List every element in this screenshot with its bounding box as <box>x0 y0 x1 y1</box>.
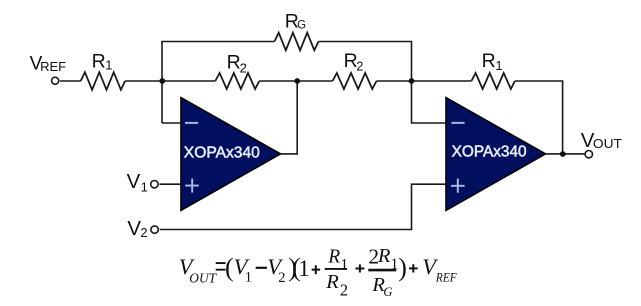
svg-text:REF: REF <box>40 59 66 74</box>
svg-text:R: R <box>377 245 391 267</box>
svg-text:1: 1 <box>495 58 502 73</box>
svg-text:2: 2 <box>278 270 285 286</box>
svg-text:REF: REF <box>435 271 457 285</box>
svg-text:V: V <box>127 170 141 193</box>
svg-text:V: V <box>127 217 141 240</box>
svg-text:G: G <box>383 285 392 299</box>
svg-text:R: R <box>327 247 340 268</box>
svg-text:R: R <box>325 271 339 293</box>
svg-text:1: 1 <box>105 58 112 73</box>
svg-text:2: 2 <box>140 225 147 240</box>
svg-text:1: 1 <box>141 179 148 194</box>
svg-text:): ) <box>398 253 407 282</box>
svg-text:2: 2 <box>240 60 247 75</box>
svg-text:2: 2 <box>340 280 348 299</box>
svg-text:OUT: OUT <box>189 271 217 286</box>
svg-text:(: ( <box>225 253 234 282</box>
svg-text:XOPAx340: XOPAx340 <box>452 144 527 161</box>
svg-text:XOPAx340: XOPAx340 <box>184 144 260 161</box>
svg-text:1: 1 <box>340 256 348 273</box>
svg-text:1: 1 <box>245 269 252 285</box>
svg-text:2: 2 <box>356 60 363 74</box>
svg-text:R: R <box>227 52 241 74</box>
svg-text:R: R <box>482 50 496 72</box>
svg-text:OUT: OUT <box>593 136 622 151</box>
svg-text:G: G <box>297 20 306 32</box>
svg-text:R: R <box>92 51 106 73</box>
svg-text:1: 1 <box>298 256 310 281</box>
